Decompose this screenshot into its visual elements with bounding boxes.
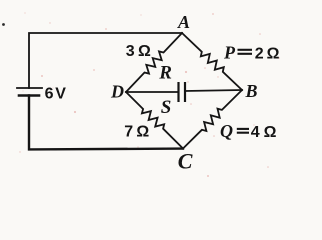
label 7 ohm	[124, 124, 149, 141]
svg-text:C: C	[178, 149, 193, 174]
svg-text:Ω: Ω	[264, 124, 277, 141]
svg-text:B: B	[245, 81, 258, 101]
resistor R 3ohm (arm A-D)	[126, 33, 182, 92]
label 6 V	[45, 86, 67, 103]
wire bottom (battery - to node C)	[29, 96, 183, 150]
label Q = 4 ohm	[220, 121, 277, 141]
resistor S 7ohm (arm D-C)	[126, 92, 183, 149]
wire top (battery + to node A)	[29, 33, 182, 88]
svg-text:R: R	[158, 63, 172, 84]
label P = 2 ohm	[223, 43, 280, 63]
wire capacitor to B	[185, 90, 242, 91]
resistor P 2ohm (arm A-B)	[182, 33, 242, 90]
svg-text:Ω: Ω	[136, 124, 149, 141]
svg-text:Ω: Ω	[267, 45, 280, 62]
wire D to capacitor	[126, 91, 178, 93]
svg-text:4: 4	[251, 124, 260, 141]
svg-text:7: 7	[124, 124, 133, 141]
resistor Q 4ohm (arm C-B)	[183, 90, 242, 149]
ink speck	[2, 23, 5, 26]
svg-text:Ω: Ω	[138, 43, 151, 60]
svg-text:D: D	[110, 82, 124, 102]
capacitor between D and B	[179, 82, 186, 102]
svg-text:2: 2	[255, 45, 264, 62]
svg-text:3: 3	[126, 43, 135, 60]
svg-text:P: P	[223, 43, 236, 63]
svg-text:V: V	[55, 86, 66, 103]
svg-text:6: 6	[45, 86, 54, 103]
svg-text:S: S	[161, 97, 172, 118]
svg-text:Q: Q	[220, 121, 233, 141]
battery 6V	[17, 88, 42, 96]
svg-text:A: A	[177, 12, 190, 32]
label 3 ohm	[126, 43, 151, 60]
